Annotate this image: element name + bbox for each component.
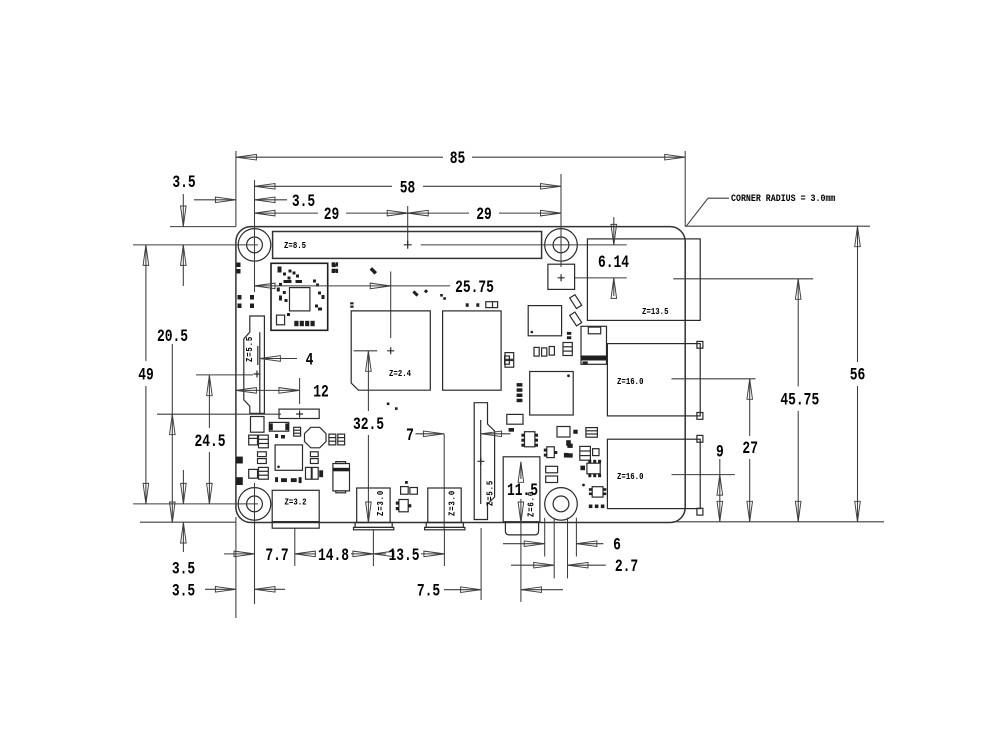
usb2 tabs — [697, 435, 703, 515]
board outline — [236, 227, 685, 523]
usb-c overhang — [272, 522, 319, 529]
GPIO header J8 — [273, 232, 542, 259]
svg-text:Z=16.0: Z=16.0 — [617, 471, 644, 482]
extension line usb1 center — [672, 378, 756, 380]
svg-text:25.75: 25.75 — [455, 277, 494, 298]
dimension 6.14 — [598, 217, 629, 298]
diagonal resistor pair below poe — [570, 295, 582, 326]
dimension 3.5 bottom horizontal — [172, 580, 285, 601]
parts between hdmi — [401, 481, 418, 494]
polyfuse octagon — [305, 427, 327, 448]
svg-text:32.5: 32.5 — [353, 414, 384, 435]
hdmi1 connector — [428, 488, 461, 523]
extension line hole bottom-right pad tangent right — [575, 518, 577, 557]
extension line usbc center below — [294, 528, 296, 566]
pad strip — [517, 383, 523, 402]
dimension 58 — [255, 177, 562, 198]
dimension 29 left — [255, 204, 408, 225]
hdmi1 flange — [425, 523, 465, 530]
parts above sdram — [466, 303, 480, 307]
black parts left edge — [236, 457, 243, 485]
dimension 14.8 — [295, 545, 374, 566]
audio jack barrel — [505, 522, 538, 535]
corner radius leader — [687, 198, 730, 226]
svg-text:Z=5.5: Z=5.5 — [244, 336, 255, 362]
svg-text:Z=3.0: Z=3.0 — [447, 490, 458, 516]
dimension 27 — [742, 379, 758, 522]
dimension 12 — [236, 381, 329, 402]
hdmi0 flange — [354, 523, 394, 530]
wifi module shield — [271, 263, 328, 330]
poe header — [548, 264, 575, 289]
caps below-left of pmic — [249, 467, 269, 479]
pmic — [275, 445, 302, 470]
dimension 32.5 — [353, 351, 384, 523]
svg-text:6: 6 — [613, 535, 621, 556]
extension line hole bottom-right pad tangent left — [544, 518, 546, 557]
power cap — [294, 427, 301, 436]
svg-text:Z=3.0: Z=3.0 — [375, 490, 386, 516]
lan9514 chip — [530, 372, 574, 416]
soc BCM2711 — [351, 311, 430, 390]
tiny pads left of usb2 — [564, 430, 578, 458]
extension line board bottom edge right — [673, 521, 885, 523]
usb power switch — [581, 326, 607, 364]
dimension 6 — [503, 535, 621, 556]
double cap right of pmic — [306, 467, 324, 479]
csi inner line — [480, 420, 482, 504]
svg-text:3.5: 3.5 — [292, 191, 315, 212]
svg-text:Z=16.0: Z=16.0 — [617, 376, 644, 387]
svg-text:Z=3.2: Z=3.2 — [285, 497, 307, 508]
csi connector — [474, 403, 494, 520]
svg-text:14.8: 14.8 — [318, 545, 349, 566]
caps below lan chip — [534, 343, 572, 357]
svg-text:29: 29 — [324, 204, 340, 225]
extension line dsi center horizontal — [196, 374, 253, 376]
centerline hole bottom-left horizontal — [133, 503, 258, 505]
wifi chip — [290, 288, 310, 311]
svg-text:Z=8.5: Z=8.5 — [284, 240, 306, 251]
lan chip — [528, 306, 561, 336]
dimension 56 — [850, 226, 866, 522]
svg-text:3.5: 3.5 — [172, 172, 195, 193]
extension line board left edge top — [235, 151, 237, 227]
svg-text:9: 9 — [716, 441, 724, 462]
svg-text:24.5: 24.5 — [194, 431, 225, 452]
svg-text:3.5: 3.5 — [172, 558, 195, 579]
centerline hole top-left vertical — [254, 180, 256, 292]
svg-text:Z=2.4: Z=2.4 — [389, 368, 411, 379]
extension line audio center below — [520, 523, 522, 602]
dimension 3.5 bottom vertical — [172, 470, 195, 579]
hdmi0 connector — [357, 488, 390, 523]
svg-text:7.5: 7.5 — [417, 581, 440, 602]
extension line soc center vertical — [390, 272, 392, 339]
sot23 between hdmi — [396, 500, 412, 512]
svg-text:56: 56 — [850, 365, 866, 386]
mounting hole top-right — [545, 229, 578, 262]
dimension 7.7 — [224, 545, 289, 566]
extension line run header vertical — [299, 378, 301, 404]
diagonal part near soc top — [370, 267, 377, 274]
caps above audio — [546, 466, 558, 482]
dimension 13.5 — [373, 545, 444, 566]
extension line soc center stub — [354, 350, 378, 352]
dimension 7.5 — [417, 581, 563, 602]
wifi scatter parts — [277, 267, 325, 317]
mounting hole top-left — [238, 229, 271, 262]
dimension 85 — [236, 148, 685, 169]
dimension 49 — [138, 245, 154, 504]
dimension 29 right — [408, 204, 561, 225]
svg-text:6.14: 6.14 — [598, 252, 629, 273]
dimension 2.7 — [511, 556, 638, 577]
centerline gpio mid extension — [407, 206, 409, 245]
extension line board left edge bottom — [235, 517, 237, 618]
usb-c power connector — [272, 490, 319, 521]
svg-text:27: 27 — [742, 438, 758, 459]
svg-text:11.5: 11.5 — [507, 480, 538, 501]
extension line board bottom edge left — [140, 521, 236, 523]
extension line usb2 center — [672, 474, 735, 476]
mounting hole bottom-right — [545, 488, 578, 521]
extension line hole bottom-right bore right — [567, 518, 569, 579]
extension line poe center horizontal — [575, 277, 627, 279]
run header — [279, 409, 319, 418]
soc center cross — [387, 347, 394, 354]
centerline hole top-right vertical — [560, 174, 562, 267]
svg-text:85: 85 — [450, 148, 466, 169]
svg-text:7: 7 — [406, 425, 414, 446]
dsi center cross — [254, 371, 261, 378]
extension line ethernet center — [673, 278, 813, 280]
extension line run header center — [157, 413, 281, 415]
extension line csi center below — [480, 528, 482, 600]
caps right of pmic — [310, 452, 318, 464]
electrolytic cap — [333, 462, 350, 493]
ethernet jack — [587, 239, 700, 321]
svg-text:45.75: 45.75 — [780, 389, 819, 410]
dimension 11.5 — [507, 462, 538, 523]
extension line board right edge top — [684, 151, 686, 227]
usb stack 1 — [607, 344, 700, 416]
wifi small part — [277, 315, 285, 325]
dimension 9 — [716, 441, 724, 521]
tiny parts below soc — [387, 403, 398, 410]
sot right of csi — [544, 447, 558, 458]
svg-text:58: 58 — [400, 177, 416, 198]
diagonal part right of soc — [412, 290, 418, 296]
svg-text:4: 4 — [306, 350, 314, 371]
centerline hole bottom-left vertical — [254, 483, 256, 604]
svg-text:13.5: 13.5 — [388, 545, 419, 566]
dimension 24.5 — [194, 375, 225, 504]
usb1 tabs — [697, 341, 703, 419]
parts cluster right of csi — [507, 414, 538, 446]
dimension 3.5 top horizontal — [194, 191, 315, 212]
pad row below soic8 — [589, 505, 605, 509]
dsi bottom tab — [251, 417, 265, 433]
pads pair above soc — [332, 264, 336, 273]
csi center cross — [477, 458, 484, 465]
pads pair soc top-left corner — [350, 302, 353, 307]
dsi connector — [244, 316, 265, 413]
parts left of usb2 — [557, 427, 599, 461]
dimension 7 — [406, 425, 510, 446]
sdram lpddr4 — [443, 311, 502, 390]
dimension 3.5 top vertical — [172, 172, 195, 286]
svg-text:Z=13.5: Z=13.5 — [642, 306, 669, 317]
svg-text:CORNER RADIUS = 3.0mm: CORNER RADIUS = 3.0mm — [731, 192, 836, 204]
dimension 20.5 — [157, 326, 188, 522]
extension line board top edge left — [170, 226, 236, 228]
svg-text:3.5: 3.5 — [172, 580, 195, 601]
dsi inner stub — [257, 346, 259, 365]
svg-text:29: 29 — [476, 204, 492, 225]
centerline gpio plus to right — [421, 244, 627, 246]
pads right of wifi — [332, 262, 339, 273]
GPIO center cross — [404, 241, 412, 249]
usb stack 2 — [607, 439, 700, 508]
audio jack — [503, 457, 540, 522]
run center cross — [296, 411, 303, 418]
extension line board top edge right — [685, 225, 870, 227]
pads right of lan chip — [567, 332, 571, 339]
svg-text:Z=5.5: Z=5.5 — [485, 480, 496, 506]
caps left column — [249, 435, 269, 463]
small pads right of soc — [424, 289, 446, 300]
soic6 near usb2 — [580, 460, 601, 477]
pads left of wifi — [237, 263, 255, 309]
tiny row below pmic — [275, 477, 302, 483]
svg-text:20.5: 20.5 — [157, 326, 188, 347]
caps right of polyfuse — [329, 434, 345, 445]
wifi pads row — [294, 321, 314, 326]
svg-text:12: 12 — [313, 381, 329, 402]
small parts pair — [567, 444, 572, 458]
power small parts — [275, 434, 285, 438]
svg-text:2.7: 2.7 — [615, 556, 638, 577]
svg-text:49: 49 — [138, 365, 154, 386]
power inductor — [269, 422, 289, 431]
dimension 4 — [260, 350, 313, 371]
part right of sdram — [505, 356, 510, 364]
extension line hole bottom-left left-edge below — [254, 520, 256, 604]
parts left of lan chip — [505, 353, 514, 368]
part above sdram right — [486, 302, 498, 308]
extension line hdmi0 center below — [372, 530, 374, 566]
extension line hdmi1 center below — [443, 530, 445, 566]
mounting hole bottom-left — [238, 488, 271, 521]
extension line hole bottom-right bore left — [553, 518, 555, 579]
poe center cross — [558, 274, 565, 281]
soic8 near usb2 — [582, 484, 606, 498]
centerline hole top-left horizontal — [133, 244, 258, 246]
dimension 25.75 — [255, 277, 494, 298]
dsi inner line — [259, 332, 261, 413]
svg-text:7.7: 7.7 — [265, 545, 288, 566]
dimension 45.75 — [780, 279, 819, 522]
